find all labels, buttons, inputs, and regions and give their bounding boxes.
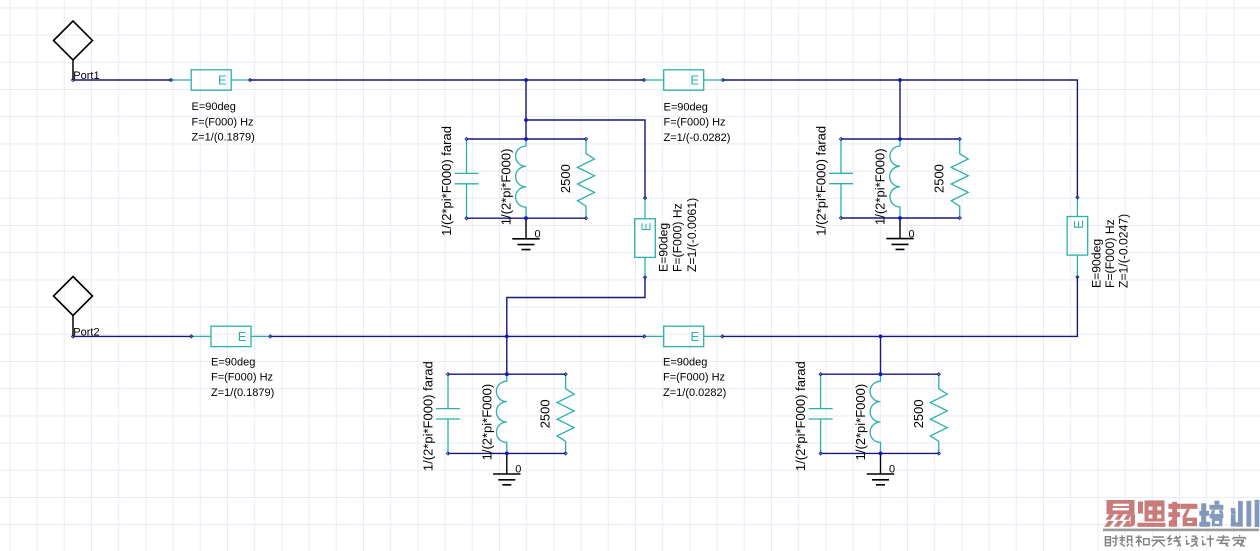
wire junction A down to tank1	[525, 80, 527, 139]
labels E5	[211, 357, 274, 399]
junction main top at tank1	[524, 78, 528, 82]
wire E1 to E2	[250, 79, 644, 81]
svg-text:0: 0	[889, 464, 895, 476]
junction tank1 bottom	[524, 216, 528, 220]
node tank3 pins	[839, 137, 961, 219]
junction tank3 top	[898, 137, 902, 141]
labels E2	[664, 102, 731, 144]
capacitor C2 1/(2*pi*F000) farad	[436, 374, 460, 453]
inductor L1 1/(2*pi*F000)	[516, 139, 526, 218]
junction tank4 top	[879, 372, 883, 376]
svg-text:E=90deg: E=90deg	[211, 357, 255, 369]
junction tank2 bottom	[505, 452, 509, 456]
junction tank3 bottom	[898, 216, 902, 220]
svg-text:1/(2*pi*F000): 1/(2*pi*F000)	[853, 384, 868, 461]
labels E4	[1090, 214, 1131, 288]
wire tank2 top rail	[448, 373, 566, 375]
capacitor C3 1/(2*pi*F000) farad	[829, 139, 853, 218]
svg-text:2500: 2500	[558, 164, 573, 193]
wire tank4 bottom rail	[821, 452, 939, 454]
node Port2 pin	[71, 335, 74, 338]
wire tank2 bottom rail	[448, 452, 566, 454]
wire tank3 bottom rail	[841, 217, 960, 219]
svg-text:E=90deg: E=90deg	[663, 357, 707, 369]
svg-text:F=(F000) Hz: F=(F000) Hz	[211, 372, 273, 384]
resistor R1 2500	[578, 139, 595, 218]
wire Port2 to E5	[73, 335, 191, 337]
svg-text:2500: 2500	[911, 399, 926, 428]
labels E1	[192, 101, 255, 143]
capacitor C1 1/(2*pi*F000) farad	[455, 139, 479, 218]
node Port1 pin	[71, 78, 74, 81]
svg-text:E=90deg: E=90deg	[664, 102, 708, 114]
phase shifter E3 (vertical)	[635, 196, 656, 279]
wire E3 bottom to Port2 row / tank2	[507, 277, 645, 374]
svg-text:E: E	[218, 73, 227, 88]
capacitor C4 1/(2*pi*F000) farad	[809, 374, 833, 453]
ground tank1	[512, 218, 540, 249]
svg-text:F=(F000) Hz: F=(F000) Hz	[671, 203, 685, 272]
phase shifter E6	[643, 326, 724, 346]
svg-text:0: 0	[535, 229, 541, 241]
wire tank4 top rail	[821, 373, 939, 375]
wire jog to vertical E3 top	[526, 120, 645, 198]
wire junction B down to tank3	[899, 80, 901, 139]
svg-text:1/(2*pi*F000) farad: 1/(2*pi*F000) farad	[793, 361, 808, 471]
watermark underline	[1103, 529, 1259, 532]
phase shifter E1	[169, 70, 251, 90]
resistor R3 2500	[951, 139, 968, 218]
inductor L2 1/(2*pi*F000)	[496, 374, 506, 453]
ground tank2	[493, 453, 521, 484]
svg-text:Z=1/(-0.0282): Z=1/(-0.0282)	[664, 132, 731, 144]
svg-text:E=90deg: E=90deg	[1090, 239, 1104, 288]
svg-text:2500: 2500	[538, 399, 553, 428]
wire tank1 top rail	[467, 138, 587, 140]
junction Port2 row at tank4	[879, 335, 883, 339]
svg-text:Z=1/(-0.0247): Z=1/(-0.0247)	[1117, 214, 1131, 288]
labels E3	[657, 198, 699, 272]
svg-text:0: 0	[909, 228, 915, 240]
svg-text:1/(2*pi*F000): 1/(2*pi*F000)	[873, 148, 888, 225]
svg-text:E: E	[691, 73, 700, 88]
junction tank1 top	[524, 137, 528, 141]
resistor R4 2500	[930, 374, 947, 453]
svg-text:E=90deg: E=90deg	[657, 223, 671, 272]
junction jog at x526	[524, 118, 528, 122]
wire E5 to E6	[270, 335, 644, 337]
svg-text:Z=1/(0.1879): Z=1/(0.1879)	[192, 132, 255, 144]
svg-text:2500: 2500	[932, 164, 947, 193]
ground tank4	[867, 453, 895, 484]
inductor L3 1/(2*pi*F000)	[890, 139, 900, 218]
svg-text:1/(2*pi*F000): 1/(2*pi*F000)	[479, 384, 494, 461]
svg-text:F=(F000) Hz: F=(F000) Hz	[192, 116, 254, 128]
resistor R2 2500	[557, 374, 574, 453]
svg-text:F=(F000) Hz: F=(F000) Hz	[664, 117, 726, 129]
node tank4 pins	[819, 373, 940, 455]
svg-text:E: E	[238, 329, 247, 344]
phase shifter E5	[190, 326, 272, 346]
svg-text:Z=1/(0.1879): Z=1/(0.1879)	[211, 387, 274, 399]
junction tank4 bottom	[879, 452, 883, 456]
wire tank1 bottom rail	[467, 217, 587, 219]
port Port2	[54, 277, 100, 339]
svg-text:F=(F000) Hz: F=(F000) Hz	[1103, 219, 1117, 288]
inductor L4 1/(2*pi*F000)	[870, 374, 880, 453]
svg-text:Z=1/(-0.0061): Z=1/(-0.0061)	[685, 198, 699, 272]
junction main top at tank3	[898, 78, 902, 82]
wire tank3 top rail	[841, 138, 960, 140]
wire E6 to right, up to E4 bottom	[722, 277, 1077, 336]
svg-text:E: E	[691, 329, 700, 344]
svg-text:E=90deg: E=90deg	[192, 101, 236, 113]
svg-text:1/(2*pi*F000) farad: 1/(2*pi*F000) farad	[814, 126, 829, 236]
svg-text:1/(2*pi*F000): 1/(2*pi*F000)	[499, 149, 514, 226]
phase shifter E2	[642, 70, 724, 90]
watermark logo title 易迪拓培训	[1104, 500, 1259, 527]
junction Port2 row at tank2	[505, 335, 509, 339]
ground tank3	[886, 218, 914, 249]
wire Port1 to E1	[73, 79, 171, 81]
svg-text:E: E	[1071, 220, 1086, 229]
svg-text:F=(F000) Hz: F=(F000) Hz	[663, 372, 725, 384]
port Port1	[54, 21, 100, 82]
watermark subtitle 射频和天线设计专家	[1105, 535, 1245, 546]
svg-text:1/(2*pi*F000) farad: 1/(2*pi*F000) farad	[421, 361, 436, 471]
node tank2 pins	[446, 373, 567, 455]
svg-text:E: E	[638, 222, 653, 231]
node tank1 pins	[465, 137, 588, 219]
junction tank2 top	[505, 372, 509, 376]
svg-text:1/(2*pi*F000) farad: 1/(2*pi*F000) farad	[439, 126, 454, 236]
phase shifter E4 (vertical)	[1067, 196, 1088, 279]
wire E2 to right corner, down to E4	[723, 80, 1077, 198]
labels E6	[663, 357, 726, 399]
svg-text:0: 0	[515, 464, 521, 476]
svg-text:Z=1/(0.0282): Z=1/(0.0282)	[663, 387, 726, 399]
wire junction D down to tank4	[880, 336, 882, 374]
